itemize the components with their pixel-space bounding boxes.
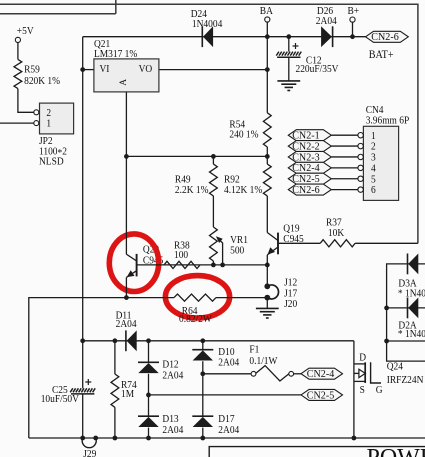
svg-text:BAT+: BAT+	[369, 48, 394, 61]
diode D3A	[398, 254, 425, 300]
junction Q24 source bottom	[352, 436, 357, 441]
wire D12 lead	[148, 341, 150, 363]
resistor R49	[175, 164, 217, 196]
junction R74 top	[113, 338, 118, 343]
net label CN2-5	[301, 389, 343, 401]
svg-text:CN2-4: CN2-4	[307, 369, 334, 380]
svg-text:A: A	[119, 79, 129, 86]
diode D26	[316, 6, 337, 48]
wire mid branch	[387, 340, 425, 342]
wire Q21 ADJ	[125, 92, 127, 254]
junction Q20 emitter	[124, 295, 129, 300]
junction R49 top	[211, 154, 216, 159]
node BA terminal	[260, 6, 274, 35]
svg-text:D17: D17	[218, 414, 234, 426]
svg-text:1: 1	[46, 118, 51, 130]
title text POWER	[367, 445, 425, 457]
svg-text:2A04: 2A04	[316, 16, 337, 28]
junction D13 bottom	[146, 436, 151, 441]
svg-text:2.2K 1%: 2.2K 1%	[175, 185, 209, 197]
wire jumper to ground	[266, 298, 268, 309]
op-amp U Q21 LM317 regulator	[94, 39, 159, 92]
capacitor C12	[276, 37, 339, 81]
label Q20 designator	[143, 244, 163, 266]
wire left drop to Q21 VI	[82, 37, 84, 341]
svg-text:F1: F1	[249, 344, 259, 356]
junction wiper node	[220, 263, 225, 268]
wire base rail	[137, 264, 268, 266]
svg-text:10K: 10K	[328, 228, 345, 240]
wire R64 rail left	[29, 298, 174, 438]
wire D12 to node	[148, 374, 150, 395]
svg-text:Q24: Q24	[387, 361, 403, 373]
junction D12 top	[146, 338, 151, 343]
connector JP2	[34, 103, 74, 168]
resistor R54	[229, 113, 271, 147]
fuse F1	[249, 344, 301, 381]
diode D11	[116, 310, 137, 351]
wire BA to R54	[266, 37, 268, 113]
jumper J12 J17	[264, 277, 297, 310]
svg-text:D13: D13	[162, 414, 178, 426]
wire D3A branch	[387, 264, 425, 361]
diode D12	[138, 359, 183, 382]
svg-text:R59: R59	[24, 64, 40, 76]
svg-text:1N4004: 1N4004	[192, 19, 222, 31]
wire R37 to top rail	[355, 242, 418, 244]
resistor R64	[174, 294, 216, 325]
wire D17 bottom	[202, 428, 204, 438]
diode D2A	[398, 298, 425, 341]
svg-text:2A04: 2A04	[218, 357, 239, 369]
resistor R59	[14, 59, 60, 88]
wire ADJ node rail	[126, 155, 267, 157]
red highlight ellipse around Q20	[109, 234, 158, 292]
junction BA rail	[265, 34, 270, 39]
net labels CN2-1..CN2-6	[288, 130, 331, 196]
resistor R92	[224, 164, 271, 196]
svg-text:* 1N400: * 1N400	[398, 288, 425, 300]
resistor R37	[320, 217, 355, 247]
wire R64 rail right	[216, 297, 267, 299]
wire D13 bottom	[148, 428, 150, 438]
svg-text:CN2-5: CN2-5	[307, 390, 334, 401]
wire top bus lower	[0, 13, 116, 15]
wire D17 lead	[202, 374, 204, 416]
junction C25 bottom	[80, 436, 85, 441]
title block border	[209, 447, 425, 457]
wire VI pin	[83, 69, 94, 71]
wire D13 lead	[148, 395, 150, 416]
junction C12 rail	[286, 34, 291, 39]
svg-text:CN2-6: CN2-6	[292, 185, 319, 196]
wire main top rail	[83, 36, 366, 38]
potentiometer VR1	[210, 227, 248, 261]
junction VR1 bottom	[211, 263, 216, 268]
svg-text:LM317 1%: LM317 1%	[94, 49, 137, 61]
wire CN2-5	[149, 394, 302, 396]
svg-text:2A04: 2A04	[162, 424, 183, 436]
wire Q19 base	[278, 242, 320, 244]
wire R49 lead	[212, 156, 214, 164]
transistor Q20	[126, 254, 136, 278]
wire F1 lead	[203, 373, 251, 375]
svg-text:500: 500	[230, 245, 244, 257]
wire R54 to node	[266, 147, 268, 156]
svg-text:NLSD: NLSD	[39, 156, 64, 168]
junction VO rail	[265, 67, 270, 72]
wire Q20 emitter	[125, 277, 127, 297]
svg-text:G: G	[376, 385, 383, 397]
wire bottom rail	[29, 437, 425, 439]
junction mid branch	[384, 339, 389, 344]
junction C25 top	[80, 338, 85, 343]
svg-text:CN2-4: CN2-4	[292, 163, 319, 174]
wiper VR1 arm	[216, 236, 223, 265]
junction R54 node	[265, 154, 270, 159]
label BAT+	[369, 48, 394, 61]
capacitor C25	[41, 341, 95, 438]
connector CN4	[358, 105, 410, 201]
svg-text:220uF/35V: 220uF/35V	[296, 63, 340, 75]
diode D13	[138, 414, 183, 436]
svg-text:BA: BA	[260, 6, 274, 18]
svg-text:J29: J29	[83, 449, 96, 457]
svg-text:2: 2	[371, 141, 376, 153]
svg-text:+5V: +5V	[17, 26, 35, 38]
red highlight ellipse around R64	[165, 276, 229, 318]
wire CN4 pin leads	[331, 135, 358, 189]
wire Q19 emitter	[266, 255, 268, 265]
svg-text:820K 1%: 820K 1%	[24, 76, 60, 88]
junction node VI	[80, 67, 85, 72]
svg-text:3: 3	[371, 152, 376, 164]
wire Q24 drain drop	[353, 341, 355, 438]
transistor Q24 IRFZ24N	[354, 352, 423, 396]
svg-text:D12: D12	[162, 359, 178, 371]
wire JP2 pin1	[0, 122, 34, 124]
junction D2A	[384, 306, 389, 311]
wire R49 to VR1	[212, 196, 214, 227]
svg-text:CN2-1: CN2-1	[292, 130, 319, 141]
svg-text:CN2-6: CN2-6	[371, 32, 398, 43]
svg-text:* 1N400: * 1N400	[398, 329, 425, 341]
wire R92 lead	[266, 156, 268, 164]
svg-text:J12: J12	[284, 277, 297, 289]
svg-text:VO: VO	[139, 64, 153, 76]
svg-text:CN2-2: CN2-2	[292, 141, 319, 152]
svg-text:2A04: 2A04	[116, 318, 137, 330]
jumper J29	[82, 436, 98, 457]
wire VO pin	[159, 69, 267, 71]
svg-text:S: S	[360, 385, 365, 397]
svg-text:IRFZ24N: IRFZ24N	[387, 375, 424, 387]
svg-text:J20: J20	[284, 298, 297, 310]
wire R92 to Q19 collector	[266, 196, 268, 233]
wire emitter to jumper	[266, 265, 268, 286]
wire R59 to JP2	[18, 89, 34, 113]
power +5V terminal	[15, 26, 34, 60]
svg-text:VI: VI	[100, 64, 110, 76]
junction ADJ rail	[124, 154, 129, 159]
junction B+ rail	[350, 34, 355, 39]
svg-text:D: D	[359, 352, 366, 364]
diode D10	[192, 346, 239, 368]
wire top bus stub	[115, 0, 117, 14]
svg-text:3.96mm 6P: 3.96mm 6P	[366, 115, 410, 127]
svg-text:1: 1	[371, 130, 376, 142]
wire D10 to node	[202, 361, 204, 374]
junction CN2-5 node	[146, 393, 151, 398]
diode D24	[191, 8, 223, 47]
svg-text:1M: 1M	[121, 389, 134, 401]
junction base rail right	[265, 263, 270, 268]
wire top bus upper	[0, 4, 418, 243]
junction R74 bottom	[113, 436, 118, 441]
svg-text:2A04: 2A04	[218, 424, 239, 436]
diode D17	[192, 414, 239, 436]
wire VR1 bottom	[212, 261, 214, 265]
ground below C12	[277, 81, 300, 91]
wire D10 lead	[202, 341, 204, 350]
node B+ terminal	[348, 6, 360, 35]
junction F1 node	[200, 371, 205, 376]
svg-text:0.1/1W: 0.1/1W	[249, 356, 278, 368]
svg-text:6: 6	[371, 185, 376, 197]
svg-text:CN2-3: CN2-3	[292, 152, 319, 163]
svg-text:POWER: POWER	[367, 445, 425, 457]
svg-text:CN2-5: CN2-5	[292, 174, 319, 185]
wire D2A lead	[387, 307, 425, 309]
junction D10 top	[200, 338, 205, 343]
svg-text:100: 100	[174, 250, 188, 262]
wire lower rail	[83, 340, 354, 342]
svg-text:4.12K 1%: 4.12K 1%	[224, 185, 262, 197]
svg-text:0.82/2W: 0.82/2W	[179, 314, 212, 326]
net label CN2-6	[366, 31, 409, 43]
svg-text:240 1%: 240 1%	[229, 129, 258, 141]
svg-text:5: 5	[371, 174, 376, 186]
resistor R38	[164, 240, 200, 269]
ground J20	[256, 308, 279, 318]
resistor R74	[111, 341, 137, 438]
svg-text:10uF/50V: 10uF/50V	[41, 393, 80, 405]
svg-text:B+: B+	[348, 6, 360, 18]
svg-text:4: 4	[371, 163, 376, 175]
junction D17 bottom	[200, 436, 205, 441]
transistor Q19	[267, 223, 303, 255]
net label CN2-4	[301, 368, 343, 380]
svg-text:2A04: 2A04	[162, 370, 183, 382]
